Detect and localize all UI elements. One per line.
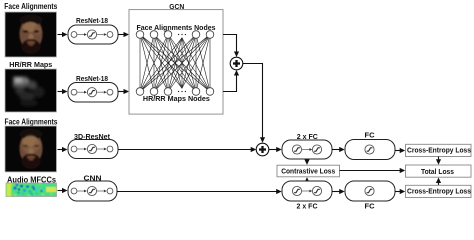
svg-text:Cross-Entropy Loss: Cross-Entropy Loss xyxy=(407,186,471,195)
block: 3D-ResNet xyxy=(68,140,118,159)
wire: MFCC to CNN xyxy=(58,188,68,193)
wire: ResNet-18 top to GCN xyxy=(118,32,129,37)
svg-text:Cross-Entropy Loss: Cross-Entropy Loss xyxy=(407,145,471,154)
svg-text:Face Alignments: Face Alignments xyxy=(4,2,57,11)
block: Total Loss xyxy=(406,165,472,177)
GCN bottom node row: HR/RR maps nodes xyxy=(136,88,214,96)
wire: 2xFC top to FC top xyxy=(332,147,345,152)
ellipsis bottom xyxy=(177,89,187,94)
wire: face2 to 3D-ResNet xyxy=(58,147,68,152)
wire: HR/RR to ResNet-18 bottom xyxy=(58,89,68,94)
input image: face alignments 1 xyxy=(5,12,57,57)
block: FC top xyxy=(345,140,395,160)
block: CNN xyxy=(68,181,117,201)
wire: FC top to cross-entropy loss top xyxy=(395,148,405,153)
svg-text:ResNet-18: ResNet-18 xyxy=(76,74,108,83)
wire: CE bottom to Total Loss xyxy=(436,178,441,186)
input image: HR/RR maps xyxy=(5,69,57,112)
svg-text:Face Alignments: Face Alignments xyxy=(5,117,58,126)
block: 2xFC top xyxy=(282,140,332,159)
svg-text:Contrastive Loss: Contrastive Loss xyxy=(281,167,335,176)
wire: face1 to ResNet-18 xyxy=(58,32,68,37)
wire: FC bottom to cross-entropy loss bottom xyxy=(395,189,405,194)
wire: GCN top output to adder 1 xyxy=(223,35,237,53)
wire: CNN to 2xFC bottom xyxy=(117,189,282,194)
block: Cross-Entropy Loss top xyxy=(406,144,472,156)
wire: contrastive loss to total loss xyxy=(340,168,406,173)
block: GCN container xyxy=(129,10,223,115)
wire: 3D-ResNet to adder 2 xyxy=(118,147,256,152)
wire: adder 1 to adder 2 xyxy=(243,64,263,138)
wire: GCN bottom output to adder 1 xyxy=(223,75,237,92)
block: Contrastive Loss xyxy=(277,165,340,177)
GCN top node row: face alignment nodes xyxy=(136,31,214,39)
wire: CE top to Total Loss xyxy=(436,157,441,165)
svg-text:HR/RR Maps Nodes: HR/RR Maps Nodes xyxy=(143,94,210,103)
svg-text:HR/RR Maps: HR/RR Maps xyxy=(9,60,52,69)
svg-text:ResNet-18: ResNet-18 xyxy=(76,16,108,25)
block: 2xFC bottom xyxy=(282,181,332,201)
svg-text:Face Alignments Nodes: Face Alignments Nodes xyxy=(137,23,216,32)
wire: adder 2 to 2xFC top xyxy=(269,147,282,152)
block: ResNet-18 top xyxy=(68,25,118,44)
adder 1 xyxy=(230,57,243,70)
ellipsis top xyxy=(177,32,187,37)
svg-text:2 x FC: 2 x FC xyxy=(297,204,318,210)
block: FC bottom xyxy=(345,181,395,201)
wire: 2xFC bottom to contrastive loss xyxy=(304,177,309,183)
svg-text:FC: FC xyxy=(365,204,375,210)
svg-text:Total Loss: Total Loss xyxy=(421,167,454,176)
wire: ResNet-18 second to GCN xyxy=(118,89,129,94)
adder 2 xyxy=(256,143,269,156)
input image: face alignments 2 xyxy=(5,126,57,172)
wire: 2xFC top to contrastive loss xyxy=(304,159,309,165)
svg-text:FC: FC xyxy=(365,133,375,140)
GCN graph edges xyxy=(140,35,210,92)
block: Cross-Entropy Loss bottom xyxy=(406,185,472,197)
input image: audio MFCC spectrogram xyxy=(6,183,57,197)
block: ResNet-18 second xyxy=(68,83,118,103)
wire: 2xFC bottom to FC bottom xyxy=(332,189,345,194)
